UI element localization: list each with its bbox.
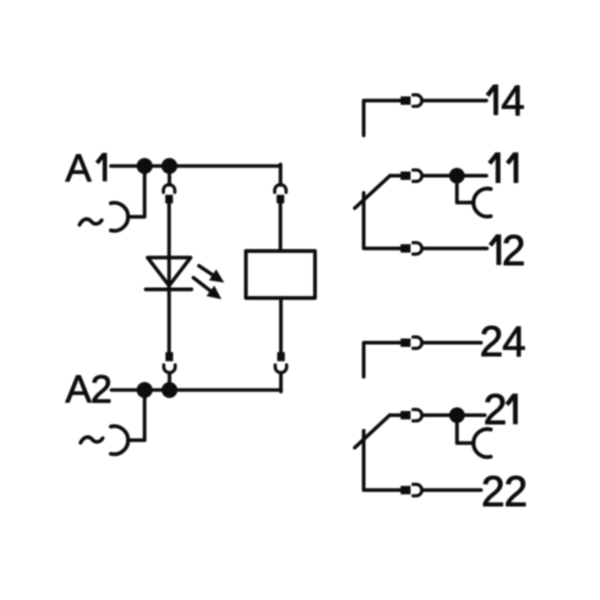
contact label 11 xyxy=(496,152,501,183)
wire contact 24 with NO stub xyxy=(364,343,401,377)
wire 22 to label xyxy=(422,488,481,492)
plug socket 24 xyxy=(413,337,422,348)
wire contact 12 xyxy=(364,193,401,249)
wire socket stem to A2 xyxy=(168,373,172,390)
clamp terminal 11 xyxy=(473,189,490,217)
svg-text:2: 2 xyxy=(504,469,528,516)
wire 14 to label xyxy=(422,99,487,103)
wire contact 11 xyxy=(390,174,401,178)
svg-text:4: 4 xyxy=(502,319,526,366)
LED light arrow 2 xyxy=(193,278,211,292)
changeover arm contact 21 xyxy=(355,415,390,448)
plug socket 21 xyxy=(413,410,422,421)
LED D1 triangle xyxy=(148,258,191,286)
AC symbol at A1 xyxy=(80,219,102,225)
svg-text:2: 2 xyxy=(91,368,113,411)
plug pin 11 xyxy=(401,172,411,180)
junction dot 21 xyxy=(449,407,465,423)
plug pin LED branch top xyxy=(165,195,173,204)
plug socket LED branch bottom xyxy=(164,365,175,373)
wire 21 to label xyxy=(422,413,485,417)
svg-text:2: 2 xyxy=(502,228,526,275)
plug pin 12 xyxy=(401,244,411,252)
plug socket LED branch top xyxy=(163,185,174,193)
plug pin 22 xyxy=(401,486,411,494)
clamp terminal 21 xyxy=(473,429,490,457)
svg-text:4: 4 xyxy=(501,78,525,125)
plug pin LED branch bottom xyxy=(166,352,174,361)
LED D1 cathode bar xyxy=(146,287,192,291)
svg-text:A: A xyxy=(65,147,91,190)
plug pin 24 xyxy=(401,339,411,347)
wire A1 down to clamp xyxy=(128,166,145,217)
wire 11 to label xyxy=(422,174,487,178)
svg-text:2: 2 xyxy=(483,387,507,434)
plug pin coil branch bottom xyxy=(277,352,285,361)
wire coil branch top corner xyxy=(279,164,283,185)
wire 21 to clamp xyxy=(457,415,474,443)
plug socket 22 xyxy=(413,484,422,495)
plug pin 21 xyxy=(401,411,411,419)
wire A2 horizontal xyxy=(112,388,282,392)
wire contact 21 xyxy=(390,413,401,417)
LED light arrow 1 xyxy=(199,266,214,276)
changeover arm contact 11 xyxy=(355,176,390,209)
plug socket 12 xyxy=(413,243,422,254)
wire contact 14 with NO stub xyxy=(364,101,401,136)
wire 24 to label xyxy=(422,341,481,345)
wire coil socket stem to A2 xyxy=(279,373,283,392)
junction dot A1 LED branch xyxy=(161,158,177,174)
clamp terminal A1 xyxy=(111,203,128,231)
wire LED branch upper stub xyxy=(168,166,172,185)
relay coil K1 xyxy=(246,251,315,298)
plug socket coil branch bottom xyxy=(275,365,286,373)
plug pin coil branch top xyxy=(277,195,285,204)
svg-text:2: 2 xyxy=(481,469,505,516)
junction dot A1 clamp branch xyxy=(137,158,153,174)
junction dot A2 LED branch xyxy=(162,382,178,398)
wire 11 to clamp xyxy=(457,176,474,203)
wire 12 to label xyxy=(422,247,487,251)
plug socket 14 xyxy=(413,95,422,106)
wire LED cathode down xyxy=(167,289,171,352)
wire plug pin to coil xyxy=(279,203,283,251)
wire LED anode xyxy=(167,203,171,289)
contact label 14 xyxy=(494,85,499,116)
clamp terminal A2 xyxy=(111,426,128,454)
wire contact 22 xyxy=(364,431,401,490)
svg-text:A: A xyxy=(65,368,91,411)
plug socket 11 xyxy=(413,170,422,181)
plug socket coil branch top xyxy=(275,185,286,193)
junction dot 11 xyxy=(449,168,465,184)
wire A1 horizontal xyxy=(111,164,281,168)
svg-text:2: 2 xyxy=(480,319,504,366)
AC symbol at A2 xyxy=(81,437,103,443)
junction dot A2 clamp branch xyxy=(137,382,153,398)
contact label 12 xyxy=(496,234,501,265)
wire coil to bottom pin xyxy=(279,298,283,352)
plug pin 14 xyxy=(401,96,411,104)
wire A2 down to clamp xyxy=(128,390,145,440)
